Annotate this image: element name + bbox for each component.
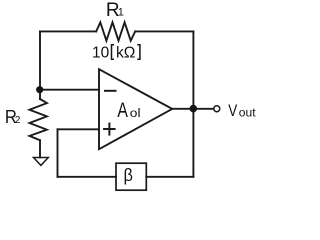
pin minus <box>105 90 116 92</box>
svg-text:kΩ: kΩ <box>116 45 135 62</box>
wire noninverting input <box>58 128 100 130</box>
wire feedback left vertical <box>57 129 59 177</box>
op-amp U1 <box>99 69 172 149</box>
label R1 <box>106 0 124 21</box>
label R2 <box>5 106 21 127</box>
wire right vertical <box>192 31 194 176</box>
wire feedback bottom right <box>146 176 193 178</box>
pin plus <box>104 124 115 135</box>
svg-text:out: out <box>239 105 256 119</box>
wire feedback bottom left <box>58 176 117 178</box>
wire left vertical <box>39 31 41 99</box>
wire R2 to ground <box>39 140 41 157</box>
ground <box>34 158 49 166</box>
label Vout <box>228 101 256 120</box>
resistor R1 <box>96 22 135 40</box>
resistor R2 <box>30 99 47 140</box>
svg-text:V: V <box>228 101 238 120</box>
wire inverting input <box>40 89 99 91</box>
wire output <box>172 108 214 110</box>
terminal Vout circle <box>214 106 220 112</box>
node inverting input junction <box>36 86 43 93</box>
wire top-left horizontal <box>40 30 96 32</box>
svg-text:β: β <box>124 165 133 185</box>
svg-text:1: 1 <box>118 6 124 18</box>
wire top-right horizontal <box>135 30 193 32</box>
node output junction <box>190 105 198 113</box>
value 10[kOhm] <box>92 45 140 62</box>
label Aol <box>117 99 140 122</box>
svg-text:10: 10 <box>92 45 110 62</box>
svg-text:A: A <box>117 99 128 122</box>
feedback block B1 <box>116 163 146 190</box>
svg-text:2: 2 <box>15 115 21 126</box>
svg-text:ol: ol <box>130 108 141 120</box>
